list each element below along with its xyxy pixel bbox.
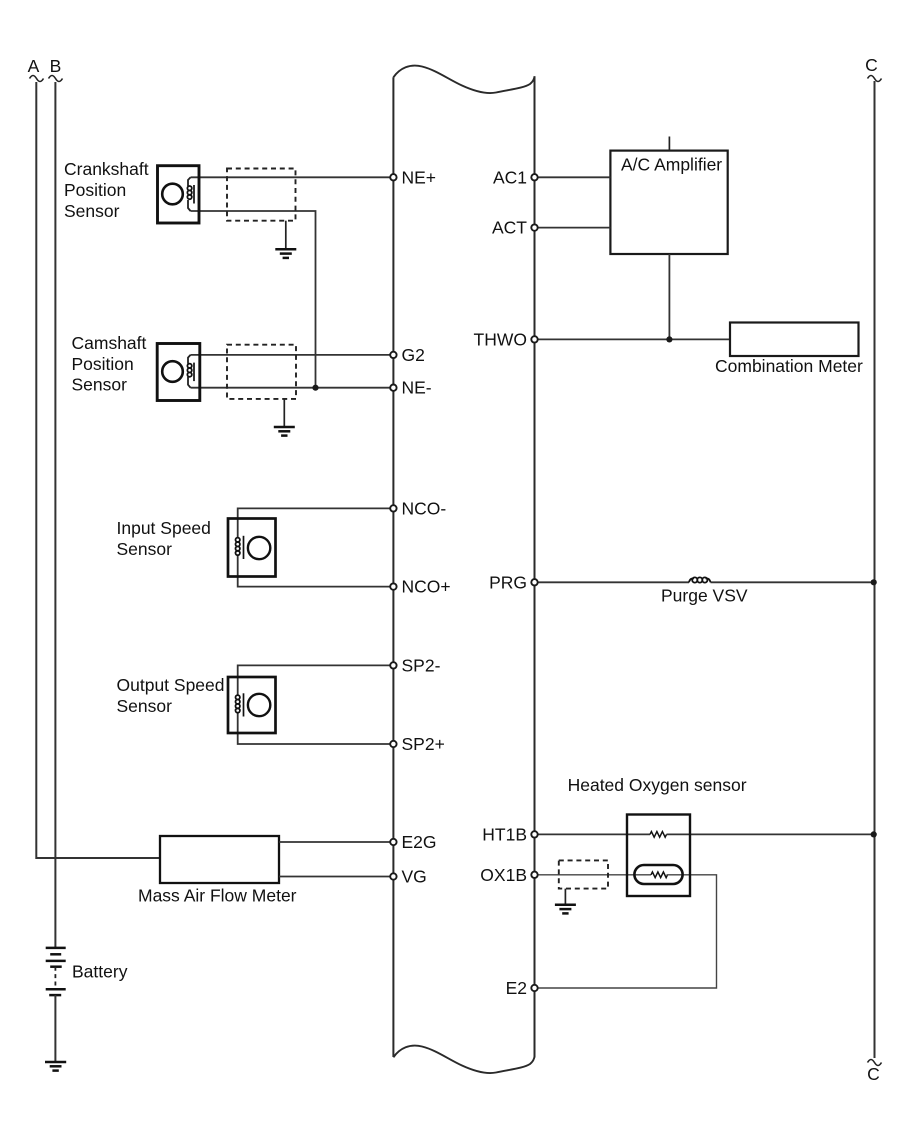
input speed sensor body — [228, 519, 276, 577]
terminal E2 — [531, 985, 537, 991]
svg-text:Sensor: Sensor — [72, 375, 128, 395]
node C label top — [865, 55, 881, 82]
cam shield dashed box — [227, 345, 296, 399]
svg-text:NE+: NE+ — [402, 167, 437, 187]
svg-text:AC1: AC1 — [493, 167, 527, 187]
svg-text:Sensor: Sensor — [117, 696, 173, 716]
svg-text:SP2-: SP2- — [402, 655, 441, 675]
sensing element zigzag — [651, 872, 668, 878]
camshaft position sensor body — [157, 344, 200, 401]
heated oxygen sensor box — [627, 815, 690, 897]
svg-text:Purge VSV: Purge VSV — [661, 586, 748, 606]
wire bus B — [54, 82, 56, 947]
terminal SP2- — [390, 662, 396, 668]
svg-text:SP2+: SP2+ — [402, 734, 445, 754]
ECU terminals left — [390, 174, 396, 880]
wire NE+ from crank sensor — [191, 176, 391, 178]
wire PRG to purge VSV to C — [538, 581, 689, 583]
OX1B shield ground — [555, 889, 576, 914]
svg-text:NE-: NE- — [402, 378, 432, 398]
terminal OX1B — [531, 872, 537, 878]
wire VG — [279, 876, 390, 878]
wire crank minus down to NE- junction — [191, 211, 316, 388]
wire ACT — [538, 227, 611, 229]
svg-text:OX1B: OX1B — [480, 865, 527, 885]
ECU bottom torn edge — [393, 1046, 534, 1073]
wire HT1B — [538, 833, 650, 835]
wire A/C amp to THWO — [668, 254, 670, 339]
wire bus A — [36, 82, 160, 858]
node B label — [49, 56, 63, 82]
terminal NCO+ — [390, 583, 396, 589]
svg-text:NCO-: NCO- — [402, 498, 447, 518]
cam shield ground — [274, 399, 295, 436]
OX1B shield dashed box — [559, 860, 608, 888]
heated oxygen sensor pill — [634, 865, 682, 884]
wire THWO — [538, 338, 730, 340]
terminal VG — [390, 873, 396, 879]
svg-text:Heated Oxygen sensor: Heated Oxygen sensor — [568, 775, 747, 795]
ECU left edge — [392, 77, 394, 1057]
output speed sensor body — [228, 677, 276, 733]
terminal E2G — [390, 839, 396, 845]
terminal NE- — [390, 385, 396, 391]
junction crank/cam NE- — [312, 385, 318, 391]
terminal SP2+ — [390, 741, 396, 747]
svg-text:PRG: PRG — [489, 572, 527, 592]
terminal NCO- — [390, 505, 396, 511]
ECU terminals right — [531, 174, 537, 991]
wire AC1 — [538, 176, 611, 178]
wire OX1B to E2 — [538, 875, 717, 988]
mass air flow meter box — [160, 836, 279, 883]
purge VSV coil — [689, 577, 711, 582]
pin labels left side — [402, 167, 451, 886]
wire NE- from cam sensor — [191, 387, 391, 389]
crank shield ground — [275, 221, 296, 258]
svg-text:Mass Air Flow Meter: Mass Air Flow Meter — [138, 886, 297, 906]
svg-text:VG: VG — [402, 867, 427, 887]
svg-text:Crankshaft: Crankshaft — [64, 159, 149, 179]
wire NCO+ — [238, 555, 391, 587]
wire SP2- — [238, 665, 391, 694]
terminal ACT — [531, 224, 537, 230]
svg-text:Position: Position — [72, 354, 134, 374]
crankshaft position sensor label — [64, 159, 149, 221]
svg-text:THWO: THWO — [474, 329, 527, 349]
terminal G2 — [390, 352, 396, 358]
terminal HT1B — [531, 831, 537, 837]
svg-text:Position: Position — [64, 180, 126, 200]
svg-text:HT1B: HT1B — [482, 824, 527, 844]
terminal NE+ — [390, 174, 396, 180]
ECU right edge — [534, 76, 536, 1057]
junction HT1B wire at C — [871, 831, 877, 837]
output speed sensor label — [117, 675, 225, 716]
wire NCO- — [238, 508, 391, 537]
svg-text:B: B — [50, 56, 62, 76]
terminal AC1 — [531, 174, 537, 180]
input speed sensor label — [117, 518, 211, 559]
wire G2 from cam sensor — [191, 354, 391, 356]
ECU top torn edge — [393, 66, 534, 93]
svg-text:Camshaft: Camshaft — [72, 333, 147, 353]
svg-text:C: C — [867, 1064, 880, 1084]
wire OX1B — [538, 874, 651, 876]
svg-text:Sensor: Sensor — [117, 539, 173, 559]
pin labels right side — [474, 167, 528, 998]
wire SP2+ — [238, 713, 391, 745]
combination meter box — [730, 323, 859, 357]
svg-text:E2: E2 — [506, 978, 527, 998]
svg-text:A: A — [28, 56, 40, 76]
camshaft position sensor label — [72, 333, 147, 395]
node C label bottom — [867, 1060, 881, 1085]
terminal THWO — [531, 336, 537, 342]
battery — [46, 948, 66, 1061]
svg-text:Battery: Battery — [72, 962, 128, 982]
node A label — [28, 56, 44, 82]
crank shield dashed box — [227, 169, 296, 221]
crankshaft position sensor body — [158, 166, 200, 223]
junction PRG wire at C — [871, 579, 877, 585]
svg-text:Combination Meter: Combination Meter — [715, 356, 863, 376]
junction A/C amp THWO — [666, 336, 672, 342]
battery ground — [45, 1062, 66, 1071]
svg-text:Input Speed: Input Speed — [117, 518, 211, 538]
svg-text:E2G: E2G — [402, 832, 437, 852]
wire E2G — [279, 841, 390, 843]
heater resistor zigzag — [650, 832, 667, 838]
wire bus C — [874, 81, 876, 1058]
terminal PRG — [531, 579, 537, 585]
svg-text:Sensor: Sensor — [64, 201, 120, 221]
svg-text:NCO+: NCO+ — [402, 577, 451, 597]
svg-text:A/C Amplifier: A/C Amplifier — [621, 155, 722, 175]
svg-text:ACT: ACT — [492, 218, 527, 238]
A/C amplifier box — [610, 137, 727, 255]
svg-text:Output Speed: Output Speed — [117, 675, 225, 695]
svg-text:G2: G2 — [402, 345, 425, 365]
svg-text:C: C — [865, 55, 878, 75]
